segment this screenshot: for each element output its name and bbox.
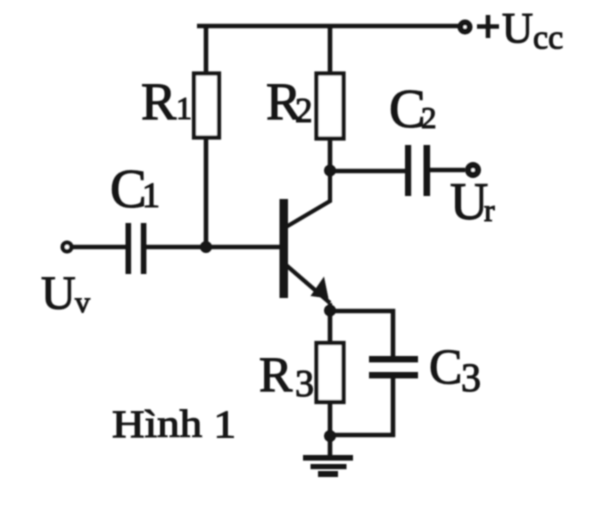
svg-text:1: 1: [142, 175, 160, 215]
svg-text:Hình 1: Hình 1: [112, 403, 236, 446]
svg-text:U: U: [41, 267, 76, 320]
svg-text:R: R: [259, 346, 293, 402]
svg-text:3: 3: [461, 355, 481, 400]
svg-text:r: r: [484, 192, 495, 228]
svg-text:2: 2: [295, 91, 313, 130]
svg-text:3: 3: [295, 363, 314, 405]
svg-text:1: 1: [176, 90, 192, 126]
svg-text:cc: cc: [533, 20, 563, 57]
svg-text:U: U: [450, 173, 488, 231]
svg-text:2: 2: [421, 100, 437, 135]
svg-text:C: C: [429, 338, 462, 394]
svg-text:R: R: [141, 73, 177, 131]
svg-text:U: U: [502, 6, 533, 53]
svg-text:v: v: [75, 286, 90, 319]
